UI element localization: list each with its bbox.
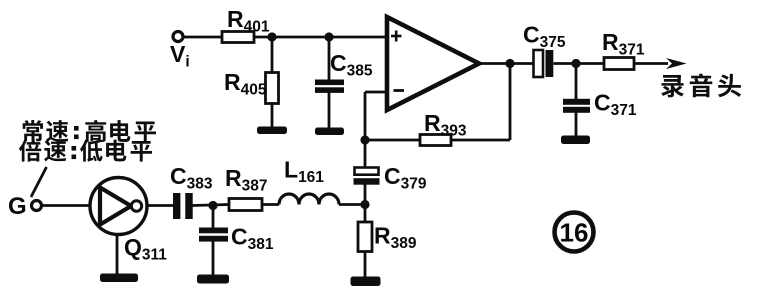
svg-text:16: 16 — [560, 218, 589, 248]
svg-text:G: G — [8, 193, 27, 220]
